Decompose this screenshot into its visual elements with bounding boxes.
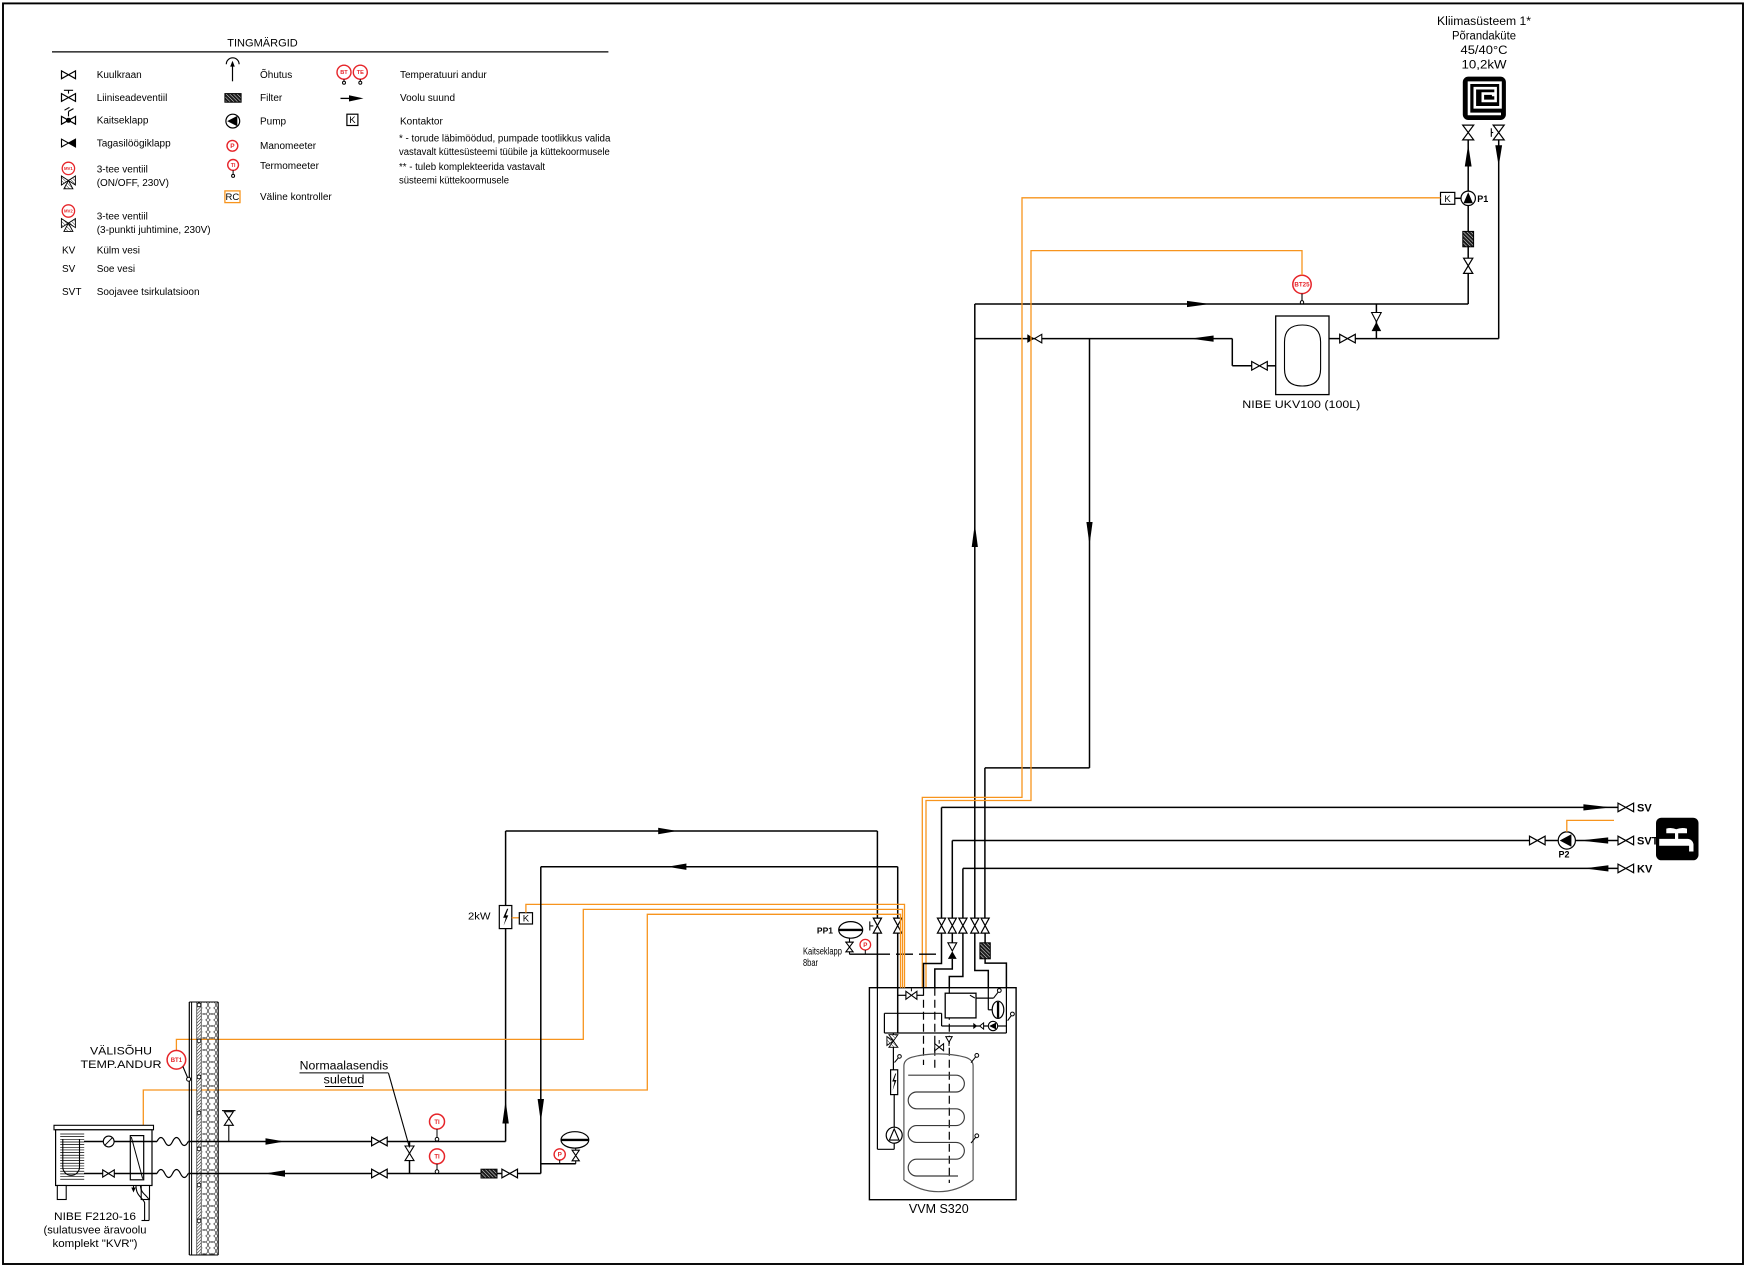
- thermometer TI top: [430, 1114, 445, 1141]
- svg-text:Õhutus: Õhutus: [260, 68, 292, 81]
- svg-text:Voolu suund: Voolu suund: [400, 93, 455, 104]
- wall section: [189, 1002, 218, 1255]
- svg-text:P: P: [863, 942, 867, 949]
- internal sensor pocket at HX: [976, 989, 1001, 999]
- wire: HP return run and riser (from VVM): [541, 867, 898, 1174]
- flow arrow down on climate return: [1495, 145, 1502, 166]
- svg-text:suletud: suletud: [324, 1074, 365, 1086]
- wire: HP top pipe: [84, 1141, 506, 1143]
- cable: heat pump communication to VVM: [143, 914, 900, 1125]
- condensate drain KVR: [131, 1186, 149, 1221]
- internal vent above tank: [946, 1037, 952, 1046]
- cable: BT1 sensor to VVM: [176, 909, 902, 1050]
- svg-text:TI: TI: [231, 163, 236, 169]
- heat pump internal divider: [130, 1136, 143, 1180]
- wire: boiler supply riser into unit (x=877.4): [876, 831, 878, 988]
- svg-text:Manomeeter: Manomeeter: [260, 141, 317, 152]
- svg-text:Väline kontroller: Väline kontroller: [260, 192, 332, 203]
- ball valve inside HP on bottom pipe: [103, 1170, 115, 1177]
- bypass check valve on return run: [1027, 334, 1042, 343]
- svg-text:TEMP.ANDUR: TEMP.ANDUR: [81, 1059, 162, 1071]
- pump P1: [1461, 191, 1488, 205]
- svg-text:SVT: SVT: [1637, 835, 1659, 847]
- cable: K contactor to VVM (P1 pump control): [922, 198, 1440, 988]
- svg-text:Normaalasendis: Normaalasendis: [300, 1061, 389, 1073]
- legend title TINGMÄRGID: [52, 38, 608, 52]
- legend safety valve Kaitseklapp: [62, 107, 149, 126]
- filter on climate supply: [1463, 231, 1474, 246]
- legend line-setting valve Liiniseadeventiil: [62, 90, 168, 104]
- heat pump fan: [103, 1136, 114, 1147]
- valve on SVT riser: [948, 918, 956, 933]
- svg-text:Filter: Filter: [260, 93, 283, 104]
- flow arrow left on return run: [1191, 336, 1214, 342]
- check valve on SVT riser: [948, 933, 957, 959]
- legend external controller RC: [225, 191, 332, 203]
- svg-text:NIBE UKV100 (100L): NIBE UKV100 (100L): [1242, 399, 1360, 411]
- wire: KV riser jog into unit: [949, 933, 963, 988]
- legend SVT circulation: [62, 287, 200, 298]
- internal circulation pump: [886, 1095, 902, 1144]
- svg-text:3-tee ventiil: 3-tee ventiil: [97, 164, 148, 175]
- svg-text:Temperatuuri andur: Temperatuuri andur: [400, 70, 487, 81]
- flex connector top: [157, 1138, 188, 1146]
- legend check valve Tagasilöögiklapp: [62, 138, 172, 149]
- svg-text:BT25: BT25: [1294, 282, 1310, 289]
- flow arrow down on HP return riser: [538, 1099, 544, 1122]
- wire: boiler return riser into unit (x=897.7): [897, 867, 899, 988]
- svg-text:Pump: Pump: [260, 116, 287, 127]
- manometer P on safety line: [860, 939, 871, 954]
- svg-text:Põrandaküte: Põrandaküte: [1452, 31, 1516, 43]
- indoor unit VVM S320: [869, 988, 1016, 1200]
- legend thermometer TI: [228, 160, 320, 178]
- internal sensor pocket right: [1008, 1012, 1015, 1021]
- svg-text:* - torude läbimöödud, pumpade: * - torude läbimöödud, pumpade tootlikku…: [399, 134, 611, 145]
- svg-text:SV: SV: [1637, 802, 1652, 814]
- line-setting valve on boiler supply riser: [870, 918, 882, 933]
- flow arrow up on climate supply: [1465, 145, 1472, 167]
- label NIBE F2120-16: [44, 1211, 147, 1250]
- flow arrow up on supply riser: [972, 524, 978, 547]
- svg-text:K: K: [349, 115, 356, 126]
- svg-text:Termomeeter: Termomeeter: [260, 161, 320, 172]
- svg-text:PP1: PP1: [817, 926, 833, 936]
- wire: KV cold water line: [963, 868, 1618, 918]
- ball valve KV end: [1618, 864, 1634, 873]
- wire: HP bottom pipe: [84, 1173, 541, 1175]
- wire: SVT riser jog into unit: [935, 959, 953, 988]
- svg-text:Kaitseklapp: Kaitseklapp: [97, 116, 149, 127]
- tank sensor pocket upper: [971, 1054, 979, 1063]
- svg-text:KV: KV: [1637, 863, 1653, 875]
- svg-text:Liiniseadeventiil: Liiniseadeventiil: [97, 93, 168, 104]
- legend manometer P: [227, 140, 317, 151]
- svg-text:TI: TI: [434, 1120, 440, 1126]
- internal piping top section: [884, 988, 1006, 1033]
- svg-text:Kaitseklapp: Kaitseklapp: [803, 947, 842, 958]
- cable: heater contactor to VVM: [526, 904, 905, 987]
- legend temperature sensors BT TE: [337, 65, 487, 84]
- legend SV warm water: [62, 264, 135, 275]
- filter on UKV return riser: [980, 933, 990, 959]
- valve on SV riser: [937, 918, 945, 933]
- flow arrow down on return drop: [1086, 522, 1092, 545]
- internal expansion vessel: [988, 988, 1004, 1019]
- valve on climate supply below icon: [1463, 125, 1474, 140]
- ball valve on top pipe: [372, 1137, 388, 1146]
- electric heater 2kW: [468, 906, 512, 929]
- svg-text:P: P: [230, 143, 235, 150]
- wire: heating supply line to climate (y=304): [975, 303, 1468, 305]
- svg-text:MV2: MV2: [64, 209, 73, 214]
- flow arrow left on SVT: [1580, 837, 1608, 843]
- wire: return drop to VVM (x=1089.5): [985, 339, 1090, 768]
- legend pump symbol: [226, 114, 287, 128]
- legend note asterisks: [399, 134, 611, 187]
- svg-text:(3-punkti juhtimine, 230V): (3-punkti juhtimine, 230V): [97, 225, 211, 236]
- svg-text:NIBE F2120-16: NIBE F2120-16: [54, 1211, 136, 1223]
- wire: P2 control cable: [1567, 820, 1614, 832]
- legend filter symbol: [225, 93, 283, 104]
- dashed safety line to cold water riser: [849, 953, 941, 955]
- label Kaitseklapp 8bar: [803, 947, 842, 969]
- manometer P on HP return: [554, 1149, 565, 1164]
- wire: internal loop to boiler supply riser: [877, 988, 894, 1150]
- heat pump NIBE F2120: [54, 1125, 154, 1199]
- ball valve at tank lower-left port: [1252, 362, 1268, 371]
- safety valve Kaitseklapp 8bar: [845, 938, 853, 954]
- svg-text:MV1: MV1: [64, 166, 73, 171]
- tap water icon: [1656, 818, 1699, 861]
- buffer tank NIBE UKV100: [1276, 316, 1329, 395]
- internal charge pump line: [942, 1023, 1007, 1029]
- valve on UKV return riser: [981, 918, 989, 933]
- internal small valve above tank: [935, 1040, 944, 1051]
- svg-text:Tagasilöögiklapp: Tagasilöögiklapp: [97, 138, 171, 149]
- flow arrow right on HP supply run: [658, 828, 677, 834]
- pump P2: [1558, 832, 1575, 860]
- svg-text:P2: P2: [1558, 850, 1569, 860]
- flow arrow left on bottom pipe: [265, 1170, 285, 1176]
- legend 3-way valve MV1: [61, 162, 169, 189]
- svg-text:Kontaktor: Kontaktor: [400, 116, 443, 127]
- flow arrow right on SV: [1583, 804, 1611, 810]
- legend air vent Õhutus: [226, 58, 292, 82]
- svg-text:K: K: [523, 914, 530, 925]
- flow arrow left on HP return run: [667, 864, 686, 870]
- wire: UKV supply riser jog into unit: [975, 933, 989, 988]
- svg-text:P1: P1: [1477, 194, 1488, 204]
- svg-text:VVM S320: VVM S320: [909, 1202, 969, 1216]
- internal cold water dip tube: [948, 988, 950, 1183]
- svg-text:BT1: BT1: [171, 1058, 183, 1064]
- sensor BT25: [1293, 275, 1311, 304]
- svg-text:KV: KV: [62, 245, 76, 256]
- normally closed bypass valve: [405, 1142, 414, 1174]
- expansion vessel on HP return: [541, 1132, 589, 1164]
- flow arrow left on KV: [1584, 865, 1608, 871]
- wire: UKV return riser E (x=984.9): [984, 768, 986, 918]
- floor heating icon: [1463, 77, 1506, 120]
- svg-text:** - tuleb komplekteerida vast: ** - tuleb komplekteerida vastavalt: [399, 162, 545, 173]
- tank sensor pocket lower: [971, 1134, 979, 1143]
- ball valve at tank right port: [1340, 334, 1356, 343]
- flow arrow right on top pipe: [266, 1138, 285, 1144]
- line-setting valve on climate return: [1491, 125, 1504, 140]
- svg-text:komplekt "KVR"): komplekt "KVR"): [53, 1238, 138, 1250]
- wire: climate return pipe (right riser x=1498.7): [1498, 140, 1500, 339]
- check valve branch between supply and return: [1372, 304, 1382, 339]
- wire: UKV return riser jog into unit: [985, 959, 1006, 988]
- contactor K box at heater: [512, 913, 533, 925]
- flex connector bottom: [157, 1170, 188, 1178]
- thermometer TI bottom: [430, 1149, 445, 1173]
- ball valve after filter: [502, 1169, 518, 1178]
- svg-text:TINGMÄRGID: TINGMÄRGID: [227, 38, 298, 50]
- flow arrow up on HP supply riser: [502, 1101, 508, 1124]
- valve on boiler return riser: [894, 918, 902, 933]
- internal 3-way valve: [887, 1033, 898, 1070]
- svg-text:45/40°C: 45/40°C: [1461, 45, 1508, 57]
- svg-text:(sulatusvee äravoolu: (sulatusvee äravoolu: [44, 1225, 147, 1237]
- svg-text:SVT: SVT: [62, 287, 81, 298]
- expansion vessel PP1: [817, 922, 863, 939]
- svg-text:VÄLISÕHU: VÄLISÕHU: [90, 1045, 152, 1058]
- svg-text:2kW: 2kW: [468, 912, 491, 923]
- drain valve near wall: [222, 1111, 236, 1142]
- outdoor air sensor BT1: [167, 1051, 191, 1082]
- label NIBE UKV100 (100L): [1242, 399, 1360, 411]
- legend ball valve Kuulkraan: [62, 70, 142, 81]
- wire: HP supply riser and top run (to VVM): [506, 831, 878, 1142]
- svg-text:Kuulkraan: Kuulkraan: [97, 70, 142, 81]
- ball valve on SVT: [1530, 836, 1546, 845]
- label SVT: [1637, 835, 1659, 847]
- svg-text:K: K: [1444, 194, 1451, 205]
- label VVM S320: [909, 1202, 969, 1216]
- svg-text:Soe vesi: Soe vesi: [97, 264, 135, 275]
- svg-text:Kliimasüsteem 1*: Kliimasüsteem 1*: [1437, 16, 1532, 28]
- filter on bottom pipe: [481, 1169, 497, 1178]
- internal electric heater: [891, 1070, 898, 1095]
- svg-text:RC: RC: [226, 192, 240, 203]
- legend flow direction arrow: [341, 93, 456, 104]
- legend contactor K: [347, 114, 444, 127]
- label VÄLISÕHU TEMP.ANDUR: [81, 1045, 162, 1072]
- valve on climate supply lower: [1464, 258, 1473, 273]
- svg-text:TI: TI: [434, 1155, 440, 1161]
- wire: tank lower-left port to return run: [975, 339, 1276, 366]
- svg-text:süsteemi küttekoormusele: süsteemi küttekoormusele: [399, 176, 509, 187]
- internal sensor pocket at 3-way line: [895, 1055, 902, 1063]
- valve on UKV supply riser: [971, 918, 979, 933]
- internal hot water charge pump: [988, 1021, 997, 1030]
- ball valve SVT end: [1618, 836, 1634, 845]
- label Normaalasendis suletud: [300, 1061, 410, 1148]
- svg-text:TE: TE: [357, 70, 364, 76]
- internal dip tube A: [923, 988, 925, 1065]
- flow arrow right on supply line: [1187, 301, 1210, 307]
- ball valve SV end: [1618, 803, 1634, 812]
- wire: SV riser jog into unit: [924, 933, 942, 988]
- wire: climate supply pipe (left riser x=1468): [1467, 140, 1469, 304]
- svg-text:BT: BT: [340, 70, 348, 76]
- wire: supply riser from VVM (x=974.8): [974, 304, 976, 918]
- valve on KV riser: [959, 918, 967, 933]
- svg-text:SV: SV: [62, 264, 76, 275]
- internal valve on boiler return inside unit: [898, 988, 924, 1033]
- svg-text:(ON/OFF, 230V): (ON/OFF, 230V): [97, 178, 169, 189]
- wire: climate return to tank (y=338.6): [1329, 338, 1499, 340]
- internal heat exchanger box: [945, 993, 976, 1018]
- internal water heater tank: [904, 1054, 973, 1192]
- contactor K box at P1: [1441, 192, 1462, 205]
- internal dip tube B: [934, 988, 936, 1072]
- ball valve on bottom pipe: [372, 1169, 388, 1178]
- svg-text:P: P: [558, 1152, 563, 1159]
- legend 3-way valve MV2: [61, 205, 210, 236]
- svg-text:8bar: 8bar: [803, 958, 819, 969]
- cable: BT25 sensor to VVM: [926, 251, 1302, 988]
- svg-text:10,2kW: 10,2kW: [1462, 60, 1507, 72]
- label SV: [1637, 802, 1652, 814]
- svg-text:vastavalt küttesüsteemi tüübil: vastavalt küttesüsteemi tüübile ja kütte…: [399, 147, 610, 158]
- svg-text:Külm vesi: Külm vesi: [97, 245, 140, 256]
- svg-text:3-tee ventiil: 3-tee ventiil: [97, 211, 148, 222]
- internal heating coil: [908, 1075, 964, 1176]
- label KV: [1637, 863, 1653, 875]
- label Kliimasüsteem 1* heading: [1437, 16, 1532, 72]
- svg-text:Soojavee tsirkulatsioon: Soojavee tsirkulatsioon: [97, 287, 200, 298]
- wire: SVT circulation line: [952, 841, 1618, 919]
- legend KV cold water: [62, 245, 140, 256]
- wire: SV hot water line: [942, 807, 1619, 918]
